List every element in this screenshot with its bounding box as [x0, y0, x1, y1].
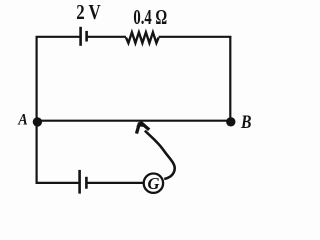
- svg-text:G: G: [148, 174, 160, 193]
- svg-text:B: B: [240, 112, 251, 133]
- svg-text:A: A: [17, 112, 27, 129]
- svg-text:0.4 Ω: 0.4 Ω: [133, 5, 167, 29]
- svg-text:2 V: 2 V: [76, 0, 101, 24]
